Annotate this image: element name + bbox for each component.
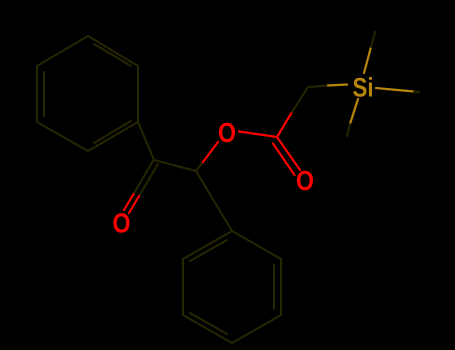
ring 2 inner double bond bottom-left edge bbox=[190, 313, 227, 334]
ring 1 inner double bond top-right edge bbox=[94, 44, 131, 66]
Si methyl right bond olive tip bbox=[414, 91, 419, 94]
Si methyl right bond goldenrod part bbox=[376, 88, 414, 92]
bond C2 to CH2 olive half bbox=[292, 87, 308, 112]
ester C2=O double bond line A red bbox=[277, 137, 300, 170]
benzene ring 2 (lower phenyl) outline bbox=[183, 231, 281, 343]
Si methyl down bond olive tip bbox=[347, 124, 350, 136]
svg-text:O: O bbox=[296, 165, 314, 196]
bond ring1 to ketone carbon C1 bbox=[138, 122, 154, 160]
bond CH to ester O red half bbox=[203, 142, 218, 162]
svg-text:Si: Si bbox=[353, 72, 374, 102]
ring 1 inner double bond bottom-right edge bbox=[94, 121, 131, 143]
bond CH2 to Si goldenrod half bbox=[328, 85, 347, 86]
ketone C1=O double bond line A red half bbox=[124, 194, 134, 210]
bond CH to benzene ring 2 bbox=[196, 171, 232, 231]
ester C2=O double bond line B red bbox=[273, 144, 295, 176]
Si methyl up bond olive tip bbox=[371, 32, 375, 47]
bond C1 to CH stereocenter bbox=[154, 160, 196, 171]
ketone C1=O double bond line A olive half bbox=[134, 161, 154, 194]
bond ester O to carbonyl C2 red bbox=[239, 132, 277, 138]
ring 2 inner double bond top-left edge bbox=[190, 240, 227, 261]
bond C2 to CH2 red half bbox=[277, 112, 292, 137]
Si methyl down bond goldenrod part bbox=[350, 99, 358, 124]
ketone C1=O double bond line B olive half bbox=[139, 164, 158, 196]
benzene ring 1 (phenyl on ketone) outline bbox=[37, 36, 138, 151]
bond CH to ester O olive half bbox=[196, 162, 203, 171]
ring 2 inner double bond right edge bbox=[273, 265, 275, 309]
Si methyl up bond goldenrod part bbox=[364, 47, 371, 73]
ketone C1=O double bond line B red half bbox=[129, 196, 139, 213]
ring 1 inner double bond left edge bbox=[43, 72, 45, 116]
bond CH2 to Si olive half bbox=[308, 86, 328, 88]
svg-text:O: O bbox=[218, 117, 236, 148]
svg-text:O: O bbox=[113, 208, 131, 239]
